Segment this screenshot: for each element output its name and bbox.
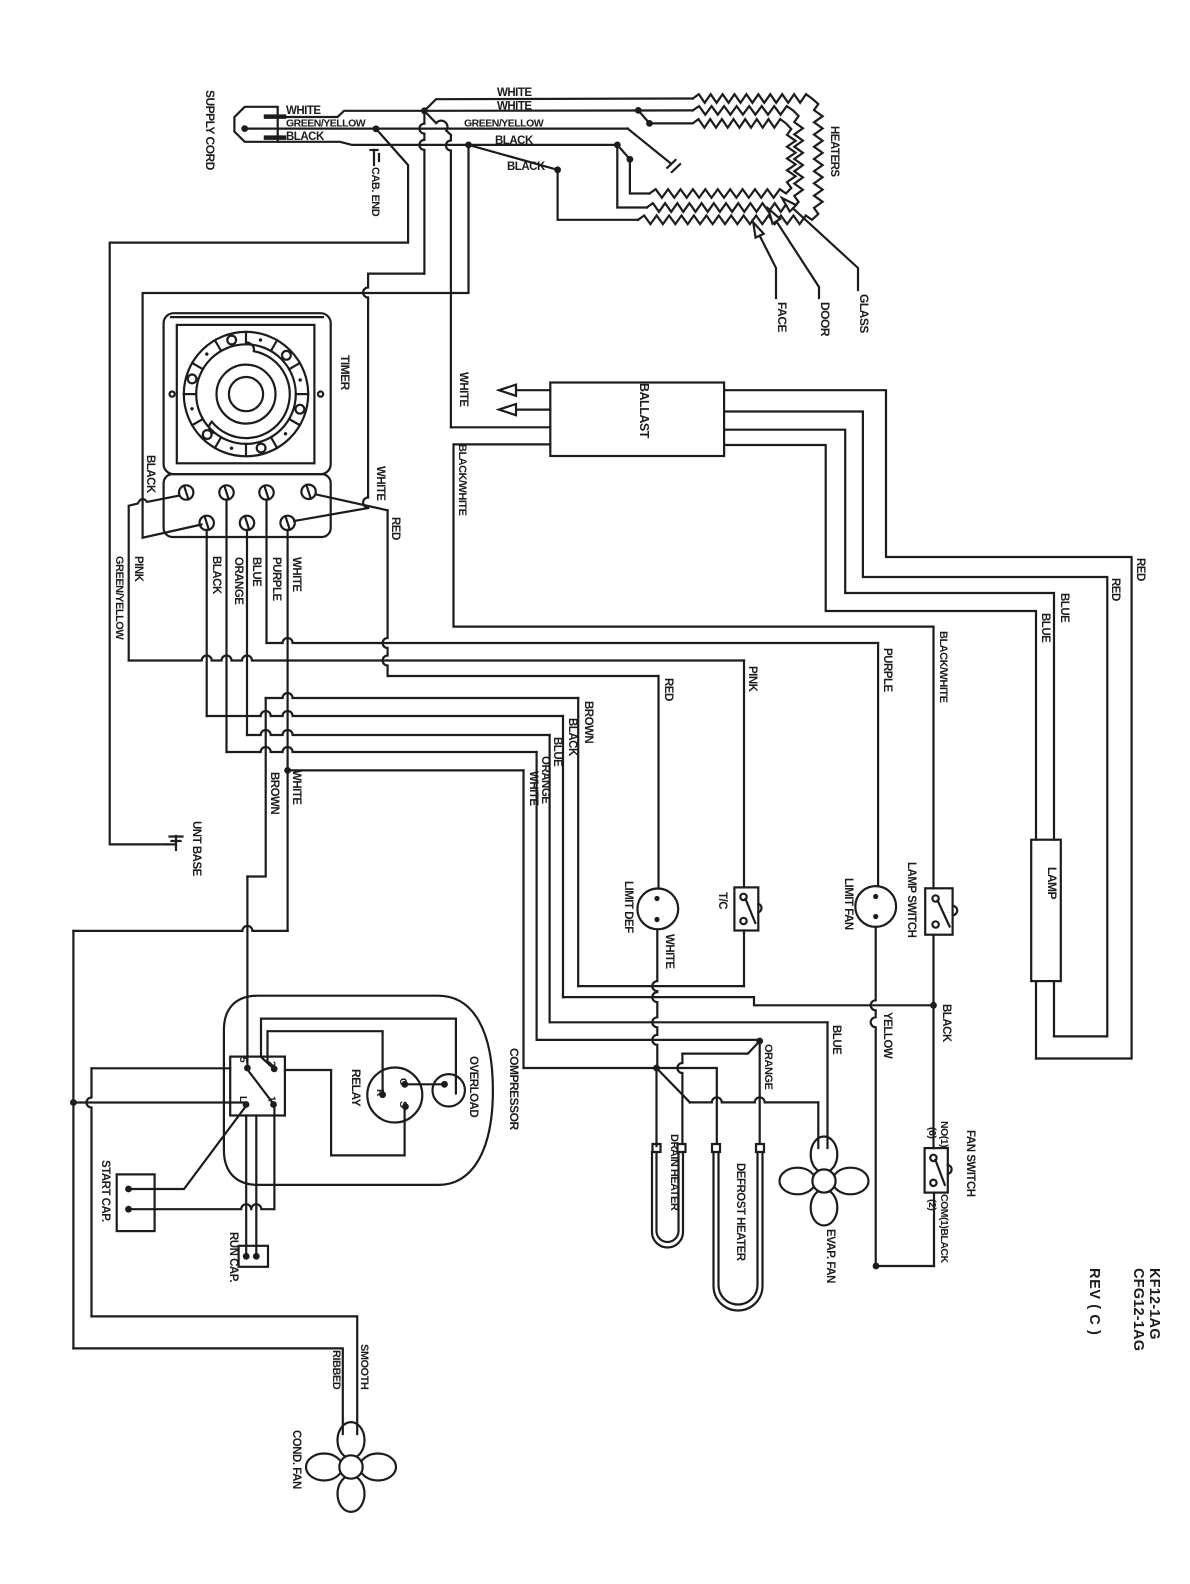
- start cap pin 1: [125, 1186, 132, 1193]
- svg-text:RED: RED: [1109, 578, 1121, 601]
- svg-text:LIMIT FAN: LIMIT FAN: [842, 878, 854, 930]
- timer mount screw left: [170, 392, 175, 397]
- run cap body: [239, 1246, 268, 1267]
- plug blade 2: [266, 135, 284, 140]
- svg-text:CAB. END: CAB. END: [369, 167, 381, 217]
- run cap pin 2: [253, 1253, 260, 1260]
- wire black/white from ballast: [454, 444, 934, 626]
- svg-text:LIMIT DEF: LIMIT DEF: [622, 881, 634, 933]
- svg-text:NO(1): NO(1): [938, 1121, 950, 1147]
- defrost heater terminal right: [756, 1144, 764, 1152]
- limit fan pin bottom: [873, 914, 878, 919]
- svg-text:CFG12-1AG: CFG12-1AG: [1130, 1268, 1146, 1351]
- svg-text:BROWN: BROWN: [582, 701, 594, 743]
- svg-text:PURPLE: PURPLE: [881, 648, 893, 692]
- timer terminal cover: [164, 474, 331, 537]
- wire blue to evap fan: [826, 1022, 828, 1148]
- svg-text:BLACK/WHITE: BLACK/WHITE: [937, 631, 949, 703]
- wire limit def bottom: [652, 929, 657, 1068]
- drain heater terminal right: [678, 1144, 686, 1152]
- svg-text:RED: RED: [1134, 558, 1146, 581]
- overload body: [433, 1074, 465, 1106]
- svg-text:TIMER: TIMER: [338, 355, 352, 391]
- wire black from B1: [206, 530, 208, 716]
- wire lamp switch to fan switch: [932, 935, 934, 1006]
- chassis ground hash marks: [667, 160, 675, 168]
- run cap pin 1: [243, 1253, 250, 1260]
- lamp switch body: [925, 888, 952, 934]
- start cap pin 2: [125, 1206, 132, 1213]
- wire white bus: [288, 769, 524, 771]
- wire blue drop: [548, 735, 550, 1022]
- svg-text:RELAY: RELAY: [349, 1069, 363, 1107]
- timer outer body: [164, 313, 331, 474]
- svg-text:SMOOTH: SMOOTH: [358, 1344, 370, 1390]
- glass arrow: [782, 198, 796, 212]
- timer dial middle circle: [217, 365, 276, 424]
- svg-text:DRAIN HEATER: DRAIN HEATER: [668, 1134, 680, 1211]
- evap fan hub: [812, 1169, 835, 1192]
- wire brown bus: [577, 698, 579, 986]
- svg-text:RUN CAP.: RUN CAP.: [227, 1232, 239, 1282]
- wire white neutral rail: [73, 926, 287, 931]
- svg-text:KF12-1AG: KF12-1AG: [1146, 1268, 1162, 1340]
- wire purple from T3: [265, 500, 267, 644]
- timer dial trip circles: [296, 405, 305, 414]
- svg-text:PINK: PINK: [746, 666, 758, 693]
- node black branch 1: [465, 142, 472, 149]
- lamp switch pin 2: [932, 921, 938, 927]
- timer terminal B3: [280, 516, 294, 530]
- svg-text:WHITE: WHITE: [527, 771, 539, 806]
- svg-text:WHITE: WHITE: [663, 934, 675, 969]
- relay node 5: [244, 1065, 251, 1072]
- t/c switch pin 1: [740, 894, 746, 900]
- wire relay to run cap 1: [245, 1116, 247, 1257]
- limit fan body: [855, 886, 896, 927]
- svg-text:WHITE: WHITE: [497, 101, 532, 113]
- wire black junction to fan switch: [932, 1005, 934, 1148]
- svg-text:WHITE: WHITE: [497, 87, 532, 99]
- svg-text:GREEN/YELLOW: GREEN/YELLOW: [113, 556, 125, 640]
- door leader line: [776, 221, 819, 298]
- svg-text:WHITE: WHITE: [374, 466, 386, 501]
- glass leader line: [793, 208, 858, 290]
- wire start cap to relay L: [129, 1106, 247, 1189]
- cond fan blades: [338, 1422, 365, 1458]
- timer mount screw right: [318, 392, 323, 397]
- door arrow: [768, 209, 780, 224]
- svg-text:LAMP SWITCH: LAMP SWITCH: [905, 862, 917, 938]
- timer dial hub circle: [229, 377, 263, 411]
- svg-text:WHITE: WHITE: [290, 770, 302, 805]
- node black branch 2: [614, 142, 621, 149]
- timer terminal T1: [179, 485, 193, 499]
- lamp bottom pin 1: [1035, 981, 1037, 1058]
- evap fan blades: [811, 1137, 838, 1173]
- wire white heater line 2: [424, 109, 692, 112]
- ballast body: [550, 383, 724, 457]
- lamp body: [1031, 840, 1061, 981]
- wire relay to run cap 2: [255, 1116, 257, 1257]
- wire yellow from limit fan: [871, 927, 876, 1266]
- svg-text:FAN SWITCH: FAN SWITCH: [964, 1130, 976, 1197]
- node neutral relay branch: [70, 1099, 77, 1106]
- t/c switch body: [734, 887, 758, 930]
- wire white supply: [278, 111, 425, 117]
- wire white drop: [522, 770, 524, 1068]
- defrost heater terminal left: [712, 1144, 720, 1152]
- heater element 1 (outer): [638, 94, 823, 224]
- svg-text:(6): (6): [926, 1127, 938, 1138]
- svg-text:BROWN: BROWN: [268, 772, 280, 814]
- cond fan hub: [339, 1455, 362, 1478]
- relay node 1: [270, 1101, 277, 1108]
- svg-text:BLACK: BLACK: [566, 718, 578, 757]
- node white heater branch: [635, 107, 642, 114]
- wire brown riser to relay: [247, 698, 265, 877]
- wire purple drop to limit fan: [877, 643, 879, 886]
- svg-text:BLACK: BLACK: [210, 556, 222, 595]
- timer terminal T2: [219, 485, 233, 499]
- start cap body: [117, 1174, 155, 1231]
- wire orange to drain heater: [682, 1041, 759, 1054]
- ballast output arrow 1: [513, 389, 550, 391]
- ballast output arrow 2: [513, 409, 550, 411]
- wire white from B3: [287, 530, 289, 931]
- wire orange drop: [535, 752, 537, 1040]
- lamp switch blade: [938, 901, 950, 927]
- motor node C: [401, 1081, 408, 1088]
- node white bus junction: [284, 767, 291, 774]
- drain heater terminal left: [653, 1144, 661, 1152]
- timer cam slot: [209, 343, 290, 438]
- svg-text:GREEN/YELLOW: GREEN/YELLOW: [286, 118, 366, 130]
- timer dial inner ring: [196, 344, 296, 444]
- overload node: [441, 1081, 448, 1088]
- svg-text:GLASS: GLASS: [857, 294, 871, 333]
- wire white to timer terminal: [419, 111, 424, 274]
- wire smooth lead: [92, 1067, 231, 1069]
- face leader line: [760, 236, 776, 298]
- svg-text:UNT BASE: UNT BASE: [190, 821, 202, 877]
- lamp bottom pin 2: [1053, 981, 1055, 1036]
- wire junction to evap fan: [657, 1068, 690, 1102]
- wire ballast blue 2: [724, 445, 1036, 840]
- svg-text:EVAP. FAN: EVAP. FAN: [824, 1229, 836, 1283]
- svg-text:LAMP: LAMP: [1045, 867, 1059, 899]
- lamp switch pin 1: [932, 895, 938, 901]
- svg-text:BLUE: BLUE: [551, 737, 563, 767]
- motor winding circle: [367, 1068, 422, 1123]
- wire ballast red 1: [724, 390, 1132, 1058]
- heater element 3 (inner): [650, 119, 796, 198]
- svg-text:PURPLE: PURPLE: [270, 557, 282, 601]
- svg-text:YELLOW: YELLOW: [881, 1012, 893, 1059]
- svg-text:BLACK: BLACK: [940, 1004, 952, 1043]
- cab end marker symbol: [373, 150, 375, 165]
- svg-text:COND. FAN: COND. FAN: [290, 1430, 302, 1489]
- wire relay 2 to motor R: [268, 1031, 383, 1094]
- svg-text:BLACK: BLACK: [507, 161, 546, 173]
- wire start cap to relay 1: [129, 1204, 275, 1209]
- node plug green/yellow: [241, 125, 248, 132]
- svg-text:BLACK: BLACK: [144, 455, 156, 494]
- wire green/yellow supply: [245, 128, 628, 130]
- timer dial ticks: [296, 393, 308, 395]
- wire black drop: [562, 716, 564, 997]
- timer terminal T3: [259, 485, 273, 499]
- wire branch to heater 3 top: [638, 110, 649, 123]
- svg-text:DOOR: DOOR: [818, 302, 832, 337]
- plug blade 1: [266, 114, 284, 119]
- wire green/yellow to unit base: [110, 129, 408, 845]
- svg-text:BALLAST: BALLAST: [637, 383, 651, 439]
- svg-text:RED: RED: [662, 678, 674, 701]
- wire black supply: [278, 142, 618, 145]
- svg-text:RIBBED: RIBBED: [330, 1350, 342, 1390]
- wire black/white drop to lamp switch: [932, 627, 934, 889]
- svg-text:REV ( C ): REV ( C ): [1086, 1268, 1102, 1335]
- unit base ground symbol: [167, 843, 176, 845]
- limit def pin bottom: [654, 917, 659, 922]
- motor node S: [402, 1103, 409, 1110]
- node yellow corner: [873, 1263, 880, 1270]
- svg-text:WHITE: WHITE: [457, 372, 469, 407]
- node black fan switch junction: [930, 1002, 937, 1009]
- svg-text:ORANGE: ORANGE: [232, 557, 244, 605]
- svg-text:BLACK: BLACK: [286, 131, 325, 143]
- svg-text:BLUE: BLUE: [250, 557, 262, 587]
- svg-text:COM(1)BLACK: COM(1)BLACK: [938, 1194, 950, 1263]
- wire white to defrost heater: [657, 1068, 717, 1144]
- wire yellow to fan switch com: [876, 1265, 934, 1267]
- svg-text:(2): (2): [926, 1199, 938, 1210]
- drain heater body: [652, 1152, 683, 1248]
- t/c switch pin 2: [740, 918, 746, 924]
- wire black supply to timer: [143, 145, 469, 538]
- node heater 3 top lead: [646, 120, 653, 127]
- relay contact blade: [247, 1070, 273, 1105]
- svg-text:START CAP.: START CAP.: [99, 1160, 111, 1222]
- timer dial trip dots: [299, 378, 302, 381]
- wire black to heater 1 bottom: [469, 145, 639, 220]
- wire black to heater 2 bottom: [617, 145, 647, 208]
- wire neutral to relay L: [73, 1101, 244, 1103]
- wire white heater line 1: [424, 99, 692, 111]
- relay node 2: [271, 1066, 278, 1073]
- wire white to ballast: [424, 111, 451, 135]
- relay body: [230, 1057, 285, 1116]
- lamp switch actuator: [953, 906, 958, 915]
- wire relay 2 to overload: [261, 1019, 456, 1082]
- fan switch pin 2: [930, 1180, 936, 1186]
- svg-text:T/C: T/C: [716, 892, 728, 909]
- svg-text:FACE: FACE: [775, 302, 789, 333]
- svg-text:DEFROST HEATER: DEFROST HEATER: [734, 1163, 746, 1262]
- node orange junction: [756, 1038, 763, 1045]
- wire neutral rail to cond fan: [73, 1348, 342, 1434]
- t/c switch blade: [746, 899, 756, 923]
- wire pink drop to t/c: [743, 661, 745, 888]
- svg-text:PINK: PINK: [132, 556, 144, 583]
- svg-text:GREEN/YELLOW: GREEN/YELLOW: [464, 118, 544, 130]
- svg-text:BLUE: BLUE: [830, 1025, 842, 1055]
- svg-text:COMPRESSOR: COMPRESSOR: [507, 1048, 521, 1131]
- node green/yellow split: [373, 125, 380, 132]
- defrost heater body: [714, 1152, 763, 1311]
- motor node R: [379, 1091, 386, 1098]
- wire junction to drain heater: [655, 1068, 657, 1146]
- timer terminal B2: [240, 516, 254, 530]
- timer terminal T4: [301, 485, 315, 499]
- face arrow: [753, 222, 764, 237]
- wire green/yellow to chassis: [628, 129, 670, 163]
- timer dial outer ring: [184, 332, 308, 456]
- wire pink from T1: [129, 496, 180, 661]
- wire ballast blue 1: [724, 430, 1054, 840]
- wire blue from B2: [246, 530, 248, 735]
- t/c switch actuator: [758, 904, 761, 913]
- wire orange from T2: [225, 500, 227, 753]
- limit def pin top: [654, 896, 659, 901]
- fan switch actuator: [948, 1165, 952, 1174]
- svg-text:SUPPLY CORD: SUPPLY CORD: [203, 90, 217, 171]
- svg-text:BLUE: BLUE: [1058, 593, 1070, 623]
- wire motor C to overload: [405, 1083, 441, 1085]
- wire black to heater 3 bottom: [617, 145, 649, 194]
- fan switch body: [925, 1148, 948, 1193]
- compressor outline: [224, 996, 493, 1185]
- svg-text:L: L: [237, 1096, 248, 1102]
- fan switch blade: [935, 1160, 944, 1185]
- heater element 2 (middle): [647, 106, 803, 212]
- wire brown to t/c bottom: [578, 985, 744, 987]
- limit fan pin top: [873, 894, 878, 899]
- timer inner panel: [177, 325, 315, 463]
- limit def body: [637, 889, 678, 930]
- node white junction: [421, 107, 428, 114]
- wire ballast red 2: [724, 412, 1107, 1037]
- svg-text:BLACK: BLACK: [495, 135, 534, 147]
- svg-text:RED: RED: [389, 517, 401, 540]
- fan switch pin 1: [930, 1155, 936, 1161]
- node black heater 3: [627, 156, 634, 163]
- svg-text:BLACK/WHITE: BLACK/WHITE: [456, 444, 468, 516]
- supply cord plug: [234, 107, 277, 142]
- svg-text:WHITE: WHITE: [290, 557, 302, 592]
- svg-text:HEATERS: HEATERS: [828, 126, 840, 177]
- svg-text:ORANGE: ORANGE: [762, 1044, 774, 1089]
- svg-text:WHITE: WHITE: [286, 105, 321, 117]
- svg-text:BLUE: BLUE: [1039, 613, 1051, 643]
- svg-text:OVERLOAD: OVERLOAD: [467, 1056, 479, 1117]
- wire red drop to limit def: [657, 676, 659, 889]
- wire red from T4: [315, 494, 387, 510]
- timer terminal B1: [200, 516, 214, 530]
- wire relay to motor S: [285, 1070, 405, 1155]
- node neutral heater junction: [653, 1065, 660, 1072]
- node black heater 1: [554, 166, 561, 173]
- relay node L: [243, 1101, 250, 1108]
